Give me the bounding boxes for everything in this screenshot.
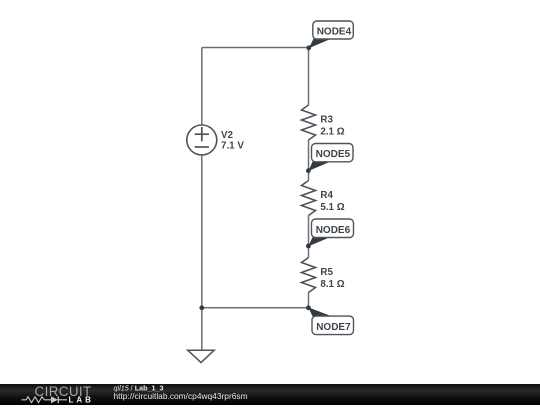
resistor R3 (302, 105, 316, 140)
node NODE4 (306, 21, 353, 50)
node NODE5 (306, 144, 353, 174)
svg-text:NODE7: NODE7 (316, 322, 351, 333)
svg-text:LAB: LAB (69, 396, 94, 405)
svg-text:R4: R4 (320, 190, 333, 201)
node NODE6 (306, 219, 354, 248)
ground (188, 350, 215, 362)
svg-text:7.1 V: 7.1 V (221, 141, 244, 152)
resistor R4 (302, 181, 316, 216)
wire R4 to NODE6 (308, 216, 310, 247)
label R5 8.1 Ω (320, 267, 344, 290)
svg-text:2.1 Ω: 2.1 Ω (320, 126, 344, 137)
CircuitLab logo (22, 384, 94, 405)
svg-text:NODE6: NODE6 (316, 225, 351, 236)
footer bar (0, 384, 540, 405)
label R4 5.1 Ω (320, 190, 344, 213)
svg-text:R3: R3 (320, 114, 333, 125)
svg-text:NODE5: NODE5 (316, 149, 351, 160)
wire NODE6 to R5 (308, 246, 310, 258)
svg-text:http://circuitlab.com/cp4wq43r: http://circuitlab.com/cp4wq43rpr6sm (114, 391, 248, 401)
svg-text:5.1 Ω: 5.1 Ω (320, 202, 344, 213)
svg-text:R5: R5 (320, 267, 333, 278)
junction dot ground node (199, 305, 204, 310)
svg-text:NODE4: NODE4 (317, 26, 352, 37)
label R3 2.1 Ω (320, 114, 344, 137)
voltage source V2 (187, 125, 217, 155)
wire R5 to NODE7 (308, 293, 310, 308)
svg-text:8.1 Ω: 8.1 Ω (320, 279, 344, 290)
wire right vertical NODE4 to R3 (308, 48, 310, 106)
svg-text:V2: V2 (221, 130, 234, 141)
wire left upper vertical (201, 48, 203, 125)
wire R3 to NODE5 (308, 140, 310, 171)
node NODE7 (306, 305, 354, 334)
wire left lower vertical (201, 155, 203, 308)
wire top horizontal (202, 47, 309, 49)
wire bottom horizontal (202, 307, 309, 309)
resistor R5 (302, 258, 316, 293)
wire ground stub (201, 308, 203, 350)
wire NODE5 to R4 (308, 171, 310, 181)
label V2 7.1 V (221, 130, 244, 152)
